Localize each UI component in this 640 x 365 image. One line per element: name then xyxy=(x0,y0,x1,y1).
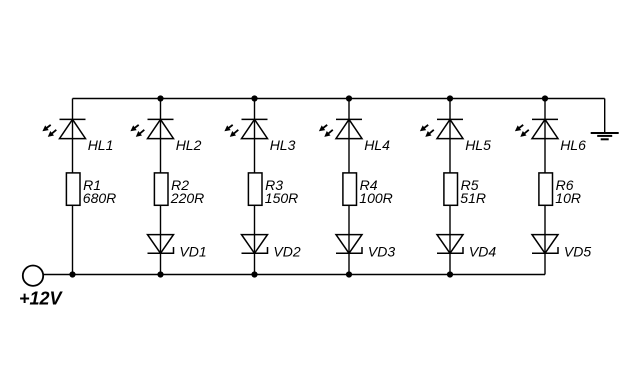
junction top rail branch 3 xyxy=(251,95,257,101)
svg-text:VD2: VD2 xyxy=(273,243,300,259)
ground xyxy=(591,133,619,139)
junction bottom rail branch 3 xyxy=(251,271,257,277)
junction top rail branch 4 xyxy=(346,95,352,101)
svg-text:HL5: HL5 xyxy=(465,137,491,153)
svg-text:+12V: +12V xyxy=(19,288,64,308)
svg-text:VD5: VD5 xyxy=(564,243,591,259)
zener diode VD3 xyxy=(336,235,362,254)
terminal +12V xyxy=(23,266,43,286)
LED HL6 xyxy=(515,119,558,138)
resistor R4 xyxy=(343,173,357,205)
svg-text:220R: 220R xyxy=(170,190,204,206)
svg-text:HL1: HL1 xyxy=(88,137,114,153)
svg-text:680R: 680R xyxy=(83,190,116,206)
wire top rail (ground bus) xyxy=(73,98,605,100)
zener diode VD4 xyxy=(437,235,463,254)
junction top rail branch 2 xyxy=(157,95,163,101)
LED HL4 xyxy=(319,119,362,138)
resistor R3 xyxy=(248,173,262,205)
wire branch 6 vertical xyxy=(544,99,546,275)
svg-text:150R: 150R xyxy=(265,190,298,206)
zener diode VD1 xyxy=(148,235,174,254)
wire drop to ground symbol xyxy=(604,99,606,134)
wire branch 4 vertical xyxy=(348,99,350,275)
wire branch 5 vertical xyxy=(449,99,451,275)
zener diode VD2 xyxy=(242,235,268,254)
resistor R6 xyxy=(539,173,553,205)
junction bottom rail branch 2 xyxy=(157,271,163,277)
LED HL2 xyxy=(130,119,173,138)
wire branch 3 vertical xyxy=(254,99,256,275)
LED HL1 xyxy=(42,119,85,138)
svg-text:HL6: HL6 xyxy=(560,137,586,153)
wire bottom rail (+12V bus) xyxy=(43,274,545,276)
LED HL5 xyxy=(420,119,463,138)
junction top rail branch 5 xyxy=(447,95,453,101)
junction top rail branch 6 xyxy=(542,95,548,101)
junction bottom rail branch 1 xyxy=(69,271,75,277)
wire branch 1 vertical xyxy=(72,99,74,275)
svg-text:VD4: VD4 xyxy=(469,243,496,259)
resistor R1 xyxy=(66,173,80,205)
svg-text:HL4: HL4 xyxy=(364,137,390,153)
wire branch 2 vertical xyxy=(160,99,162,275)
junction bottom rail branch 4 xyxy=(346,271,352,277)
resistor R5 xyxy=(444,173,458,205)
svg-text:VD3: VD3 xyxy=(368,243,395,259)
svg-text:51R: 51R xyxy=(460,190,486,206)
svg-text:VD1: VD1 xyxy=(179,243,206,259)
svg-text:100R: 100R xyxy=(359,190,392,206)
svg-text:HL2: HL2 xyxy=(176,137,202,153)
zener diode VD5 xyxy=(532,235,558,254)
svg-text:HL3: HL3 xyxy=(270,137,296,153)
svg-text:10R: 10R xyxy=(555,190,581,206)
LED HL3 xyxy=(224,119,267,138)
resistor R2 xyxy=(154,173,168,205)
junction bottom rail branch 5 xyxy=(447,271,453,277)
